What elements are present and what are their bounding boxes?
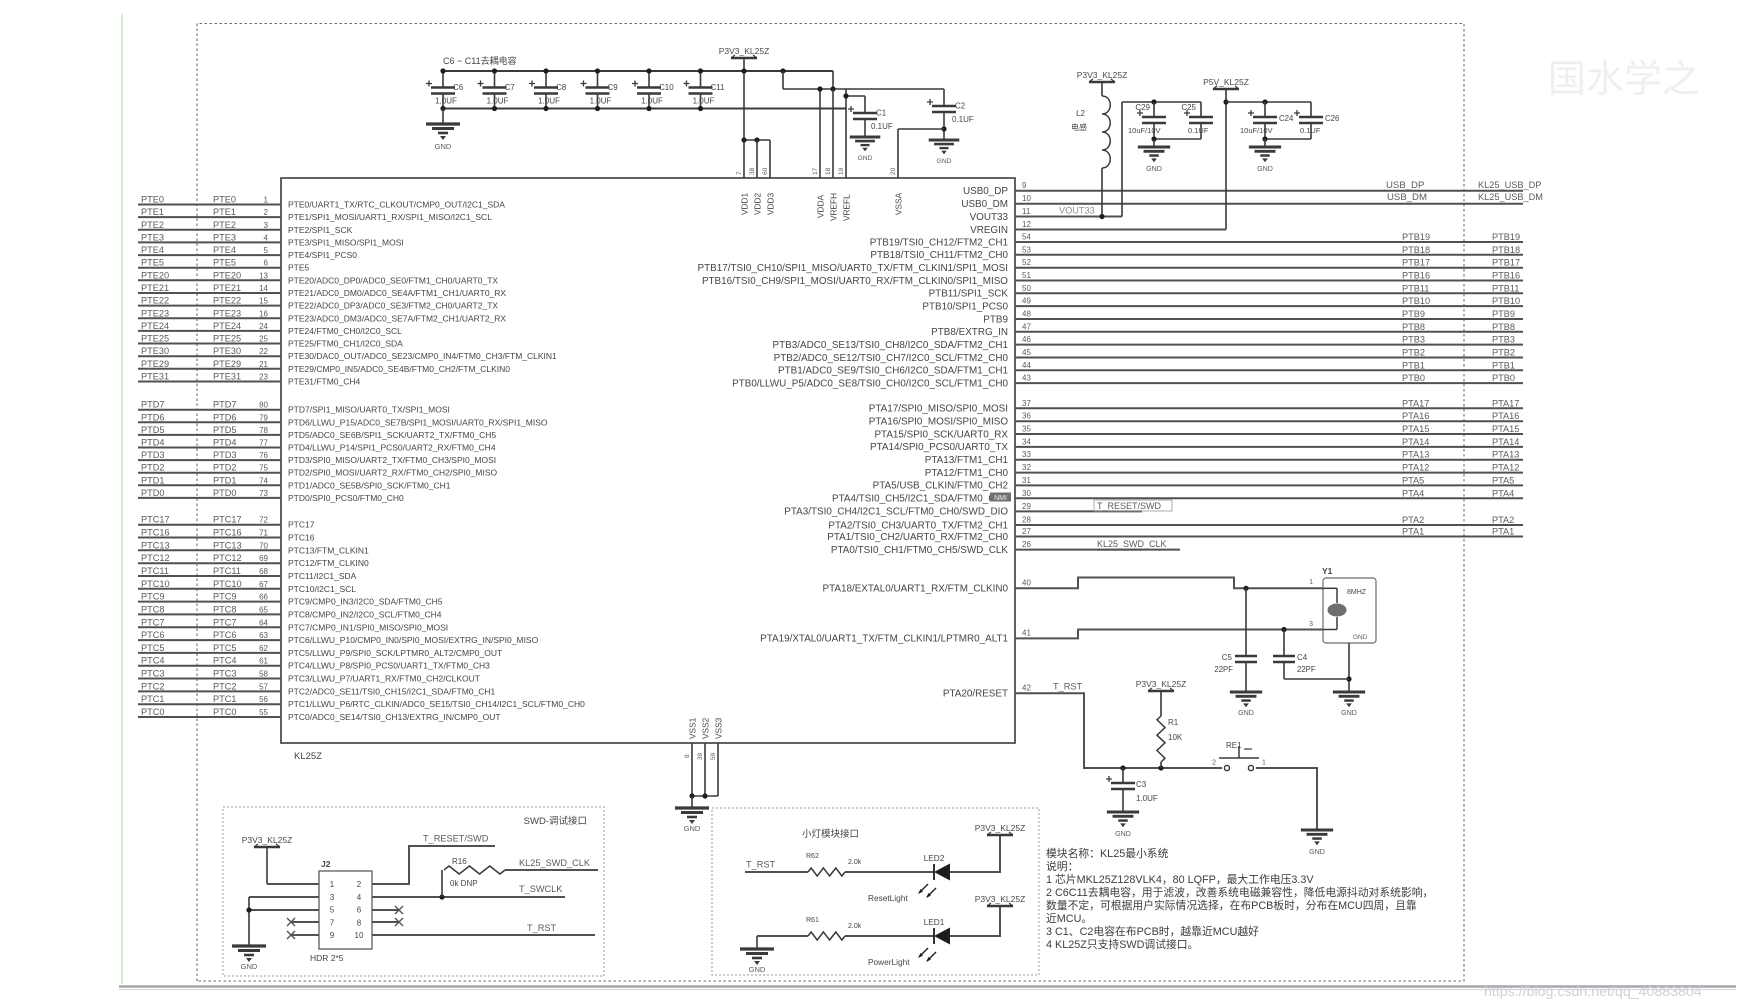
wire cap bottoms <box>1154 138 1201 140</box>
svg-text:33: 33 <box>1022 450 1031 459</box>
svg-text:22PF: 22PF <box>1297 665 1316 674</box>
svg-text:USB0_DP: USB0_DP <box>963 186 1008 197</box>
wire PTB19 net <box>1015 241 1523 243</box>
wire PTA13 net <box>1015 459 1523 461</box>
wire PTD4 net <box>138 447 281 449</box>
svg-text:71: 71 <box>259 529 268 538</box>
capacitor C9 1.0UF <box>597 71 599 88</box>
svg-text:PTE29: PTE29 <box>141 359 169 369</box>
wire PTD3 net <box>138 459 281 461</box>
svg-text:PTB0: PTB0 <box>1492 373 1515 383</box>
svg-text:69: 69 <box>259 554 268 563</box>
svg-text:PTA16/SPI0_MOSI/SPI0_MISO: PTA16/SPI0_MOSI/SPI0_MISO <box>869 417 1009 428</box>
svg-text:24: 24 <box>259 322 268 331</box>
svg-text:22: 22 <box>259 347 268 356</box>
svg-text:PTB16: PTB16 <box>1402 271 1430 281</box>
svg-text:PTE23: PTE23 <box>141 308 169 318</box>
svg-text:42: 42 <box>1022 684 1031 693</box>
wire PTB8 net <box>1015 331 1523 333</box>
svg-text:PTD7: PTD7 <box>141 400 165 410</box>
svg-text:PTC6: PTC6 <box>213 630 237 640</box>
wire VOUT33 net <box>1015 216 1122 218</box>
svg-text:PTE20: PTE20 <box>141 270 169 280</box>
wire pin1 <box>266 847 268 884</box>
no-connect pin6 <box>372 909 399 911</box>
capacitor C8 1.0UF <box>545 71 547 88</box>
svg-text:VREGIN: VREGIN <box>970 225 1008 236</box>
svg-text:PTC11: PTC11 <box>213 566 241 576</box>
svg-text:PTA13: PTA13 <box>1402 450 1429 460</box>
wire R62 to LED2 <box>845 871 934 873</box>
wire to C29 rail <box>1121 102 1123 217</box>
svg-text:45: 45 <box>1022 348 1031 357</box>
wire PTB1 net <box>1015 369 1523 371</box>
svg-text:14: 14 <box>259 284 268 293</box>
svg-text:PTC13: PTC13 <box>213 540 242 550</box>
wire PTC17 net <box>138 524 281 526</box>
svg-text:P5V_KL25Z: P5V_KL25Z <box>1203 77 1249 87</box>
svg-text:PTA5: PTA5 <box>1492 475 1514 485</box>
wire PTE1 net <box>138 216 281 218</box>
svg-text:PTA15: PTA15 <box>1492 424 1519 434</box>
svg-text:C9: C9 <box>608 83 619 92</box>
wire PTB17 net <box>1015 267 1523 269</box>
wire PTB3 net <box>1015 344 1523 346</box>
wire USB0_DP net USB_DP <box>1015 190 1523 192</box>
wire pin5 GND <box>249 909 319 911</box>
svg-text:C4: C4 <box>1297 653 1308 662</box>
svg-text:PTB17/TSI0_CH10/SPI1_MISO/UART: PTB17/TSI0_CH10/SPI1_MISO/UART0_TX/FTM_C… <box>698 263 1008 274</box>
svg-text:PTE25: PTE25 <box>141 334 169 344</box>
svg-text:PTE31: PTE31 <box>141 372 169 382</box>
svg-text:51: 51 <box>1022 271 1031 280</box>
svg-text:PTB10: PTB10 <box>1492 296 1520 306</box>
ground (cap bank) <box>442 109 444 125</box>
wire PTB2 net <box>1015 357 1523 359</box>
svg-text:PTD4: PTD4 <box>141 438 165 448</box>
wire VSSA <box>898 128 944 130</box>
ground (C5) <box>1230 690 1262 693</box>
svg-text:7: 7 <box>330 918 335 927</box>
svg-text:PTA18/EXTAL0/UART1_RX/FTM_CLKI: PTA18/EXTAL0/UART1_RX/FTM_CLKIN0 <box>823 584 1009 595</box>
power flag P3V3_KL25Z (VDD) <box>731 57 757 59</box>
svg-text:70: 70 <box>259 541 268 550</box>
wire PTC4 net <box>138 665 281 667</box>
svg-text:79: 79 <box>259 413 268 422</box>
svg-text:PTE0: PTE0 <box>213 195 236 205</box>
ground (C24/C26) <box>1264 139 1266 147</box>
svg-text:49: 49 <box>1022 297 1031 306</box>
svg-text:HDR 2*5: HDR 2*5 <box>310 953 344 963</box>
power flag P3V3_KL25Z (R1) <box>1148 690 1174 692</box>
svg-text:GND: GND <box>937 158 952 165</box>
svg-text:PTA5/USB_CLKIN/FTM0_CH2: PTA5/USB_CLKIN/FTM0_CH2 <box>873 481 1008 492</box>
svg-text:1.0UF: 1.0UF <box>435 97 457 106</box>
svg-text:GND: GND <box>241 962 258 971</box>
svg-text:数量不定，可根据用户实际情况选择，在布PCB板时，分布在MC: 数量不定，可根据用户实际情况选择，在布PCB板时，分布在MCU四周，且靠 <box>1046 898 1417 912</box>
svg-text:VREFL: VREFL <box>842 194 852 221</box>
wire PTE20 net <box>138 279 281 281</box>
svg-text:GND: GND <box>1341 709 1357 717</box>
svg-text:44: 44 <box>1022 361 1031 370</box>
svg-text:PTE25: PTE25 <box>213 334 241 344</box>
svg-text:2: 2 <box>1212 760 1216 767</box>
svg-text:40: 40 <box>1022 579 1031 588</box>
power rail top <box>443 70 833 72</box>
wire PTA2 net <box>1015 524 1523 526</box>
svg-text:PTA12/FTM1_CH0: PTA12/FTM1_CH0 <box>925 468 1009 479</box>
svg-text:2.0k: 2.0k <box>848 923 862 930</box>
wire XTAL0 pin 41 <box>1015 630 1323 639</box>
wire PTA17 net <box>1015 407 1523 409</box>
wire PTC12 net <box>138 562 281 564</box>
svg-text:PTB11/SPI1_SCK: PTB11/SPI1_SCK <box>929 289 1009 300</box>
svg-text:PTA15/SPI0_SCK/UART0_RX: PTA15/SPI0_SCK/UART0_RX <box>874 429 1008 440</box>
wire PTA12 net <box>1015 472 1523 474</box>
svg-text:25: 25 <box>259 335 268 344</box>
svg-text:PTC4: PTC4 <box>213 656 237 666</box>
svg-text:PTA1/TSI0_CH2/UART0_RX/FTM2_CH: PTA1/TSI0_CH2/UART0_RX/FTM2_CH0 <box>827 532 1008 543</box>
wire to C24 rail <box>1226 101 1311 103</box>
svg-text:PTB2: PTB2 <box>1402 348 1425 358</box>
svg-text:PTE0/UART1_TX/RTC_CLKOUT/CMP0_: PTE0/UART1_TX/RTC_CLKOUT/CMP0_OUT/I2C1_S… <box>288 200 505 210</box>
svg-text:PTD6: PTD6 <box>141 412 165 422</box>
svg-text:ResetLight: ResetLight <box>868 893 908 903</box>
svg-text:PTC1: PTC1 <box>141 694 165 704</box>
svg-text:T_RST: T_RST <box>746 860 775 870</box>
svg-text:PTA4: PTA4 <box>1492 488 1514 498</box>
wire PTB0 net <box>1015 382 1523 384</box>
svg-text:PTE1: PTE1 <box>213 207 236 217</box>
svg-text:VSS3: VSS3 <box>714 717 724 739</box>
capacitor C2 0.1UF <box>943 89 945 106</box>
wire PTE29 net <box>138 368 281 370</box>
svg-text:PTE24: PTE24 <box>213 321 241 331</box>
svg-text:72: 72 <box>259 516 268 525</box>
svg-text:PTC16: PTC16 <box>141 528 170 538</box>
svg-text:50: 50 <box>1022 284 1031 293</box>
svg-text:GND: GND <box>684 824 701 833</box>
wire PTE22 net <box>138 305 281 307</box>
svg-text:28: 28 <box>1022 516 1031 525</box>
svg-text:PTA0/TSI0_CH1/FTM0_CH5/SWD_CLK: PTA0/TSI0_CH1/FTM0_CH5/SWD_CLK <box>831 545 1008 556</box>
svg-text:LED2: LED2 <box>924 853 945 863</box>
svg-text:小灯模块接口: 小灯模块接口 <box>802 828 859 840</box>
svg-text:PTD1: PTD1 <box>141 475 165 485</box>
wire VREFL <box>845 89 847 178</box>
svg-text:VSS1: VSS1 <box>688 717 698 739</box>
wire crystal case ground <box>1348 643 1350 692</box>
sheet border dashed frame <box>197 24 1464 982</box>
svg-text:PTE31/FTM0_CH4: PTE31/FTM0_CH4 <box>288 377 361 387</box>
svg-text:2 C6C11去耦电容，用于滤波，改善系统电磁兼容性，降低电: 2 C6C11去耦电容，用于滤波，改善系统电磁兼容性，降低电源抖动对系统影响， <box>1046 885 1433 899</box>
svg-text:PTD7: PTD7 <box>213 400 237 410</box>
svg-text:PTB18: PTB18 <box>1402 245 1430 255</box>
svg-text:4: 4 <box>264 233 269 242</box>
svg-text:PTE5: PTE5 <box>288 263 310 273</box>
svg-text:PTC7/CMP0_IN1/SPI0_MISO/SPI0_M: PTC7/CMP0_IN1/SPI0_MISO/SPI0_MOSI <box>288 622 448 632</box>
svg-text:PTC2: PTC2 <box>213 681 237 691</box>
wire PTC2 net <box>138 690 281 692</box>
svg-text:8: 8 <box>357 918 362 927</box>
wire VDD stem <box>743 58 745 140</box>
wire PTA15 net <box>1015 433 1523 435</box>
svg-text:PTC1/LLWU_P6/RTC_CLKIN/ADC0_SE: PTC1/LLWU_P6/RTC_CLKIN/ADC0_SE15/TSI0_CH… <box>288 699 585 709</box>
svg-text:59: 59 <box>710 752 717 760</box>
svg-text:PTB16/TSI0_CH9/SPI1_MOSI/UART0: PTB16/TSI0_CH9/SPI1_MOSI/UART0_RX/FTM_CL… <box>702 276 1008 287</box>
svg-text:34: 34 <box>1022 437 1031 446</box>
svg-text:64: 64 <box>259 618 268 627</box>
svg-text:PTC3: PTC3 <box>213 669 237 679</box>
wire PTB11 net <box>1015 292 1523 294</box>
svg-text:0.1UF: 0.1UF <box>871 122 893 131</box>
svg-text:PTB8/EXTRG_IN: PTB8/EXTRG_IN <box>931 327 1008 338</box>
no-connect pin7 <box>291 921 319 923</box>
svg-text:PTE29/CMP0_IN5/ADC0_SE4B/FTM0_: PTE29/CMP0_IN5/ADC0_SE4B/FTM0_CH2/FTM_CL… <box>288 364 510 374</box>
svg-text:PTC9: PTC9 <box>213 592 237 602</box>
svg-text:30: 30 <box>1022 489 1031 498</box>
svg-text:PTC3/LLWU_P7/UART1_RX/FTM0_CH2: PTC3/LLWU_P7/UART1_RX/FTM0_CH2/CLKOUT <box>288 674 480 684</box>
wire PTC7 net <box>138 626 281 628</box>
svg-text:9: 9 <box>330 931 335 940</box>
svg-text:PTD1/ADC0_SE5B/SPI0_SCK/FTM0_C: PTD1/ADC0_SE5B/SPI0_SCK/FTM0_CH1 <box>288 480 451 490</box>
svg-text:73: 73 <box>259 489 268 498</box>
capacitor C5 22PF <box>1243 586 1248 591</box>
svg-text:C6 ~ C11去耦电容: C6 ~ C11去耦电容 <box>443 55 517 66</box>
svg-text:PTC11/I2C1_SDA: PTC11/I2C1_SDA <box>288 571 357 581</box>
svg-text:15: 15 <box>259 297 268 306</box>
svg-text:78: 78 <box>259 426 268 435</box>
svg-text:13: 13 <box>259 271 268 280</box>
resistor R62 (LED2) <box>808 868 845 876</box>
svg-text:VDD1: VDD1 <box>740 192 750 215</box>
svg-text:PTB19: PTB19 <box>1492 232 1520 242</box>
svg-text:GND: GND <box>1309 848 1325 856</box>
scan edge green line <box>121 14 123 984</box>
svg-text:43: 43 <box>1022 374 1031 383</box>
svg-text:PTD2/SPI0_MOSI/UART2_RX/FTM0_C: PTD2/SPI0_MOSI/UART2_RX/FTM0_CH2/SPI0_MI… <box>288 468 497 478</box>
svg-text:PTD7/SPI1_MISO/UART0_TX/SPI1_M: PTD7/SPI1_MISO/UART0_TX/SPI1_MOSI <box>288 405 450 415</box>
connector J2 HDR 2*5 <box>319 871 372 949</box>
svg-text:PTA1: PTA1 <box>1492 527 1514 537</box>
svg-text:KL25_USB_DM: KL25_USB_DM <box>1478 192 1543 202</box>
svg-text:47: 47 <box>1022 322 1031 331</box>
wire PTC8 net <box>138 613 281 615</box>
svg-text:27: 27 <box>1022 527 1031 536</box>
wire PTA1 net <box>1015 536 1523 538</box>
svg-text:1: 1 <box>264 196 269 205</box>
svg-text:3: 3 <box>264 221 269 230</box>
svg-text:R1: R1 <box>1168 718 1179 727</box>
svg-text:36: 36 <box>1022 412 1031 421</box>
svg-text:52: 52 <box>1022 258 1031 267</box>
svg-text:PTB10: PTB10 <box>1402 296 1430 306</box>
svg-text:PTC8/CMP0_IN2/I2C0_SCL/FTM0_CH: PTC8/CMP0_IN2/I2C0_SCL/FTM0_CH4 <box>288 609 442 619</box>
svg-text:C5: C5 <box>1222 653 1233 662</box>
svg-text:Y1: Y1 <box>1322 566 1333 576</box>
svg-text:46: 46 <box>1022 335 1031 344</box>
NMI marker on PTA4 <box>990 493 1011 502</box>
svg-text:54: 54 <box>1022 233 1031 242</box>
svg-text:PTC5: PTC5 <box>213 643 237 653</box>
wire PTC10 net <box>138 588 281 590</box>
svg-text:0k DNP: 0k DNP <box>450 879 478 888</box>
svg-text:10uF/10V: 10uF/10V <box>1240 126 1273 135</box>
svg-text:VSS2: VSS2 <box>701 717 711 739</box>
svg-text:PTA5: PTA5 <box>1402 475 1424 485</box>
svg-text:PTA14: PTA14 <box>1492 437 1519 447</box>
svg-text:PTD2: PTD2 <box>213 463 237 473</box>
wire PTE5 net <box>138 267 281 269</box>
svg-text:PTE4: PTE4 <box>213 245 236 255</box>
svg-text:PTE30: PTE30 <box>213 346 241 356</box>
svg-text:31: 31 <box>1022 476 1031 485</box>
wire VDD pins rail <box>744 139 770 141</box>
svg-text:PTD5: PTD5 <box>141 425 165 435</box>
svg-text:PTB1: PTB1 <box>1492 360 1515 370</box>
svg-text:PTE1: PTE1 <box>141 207 164 217</box>
svg-text:PTA14/SPI0_PCS0/UART0_TX: PTA14/SPI0_PCS0/UART0_TX <box>870 442 1008 453</box>
wire VDD1 <box>743 140 745 178</box>
svg-text:18: 18 <box>825 167 832 175</box>
wire C4 to case ground <box>1284 678 1349 680</box>
svg-text:T_SWCLK: T_SWCLK <box>519 884 563 894</box>
wire cap bottoms <box>1265 138 1311 140</box>
wire PTE3 net <box>138 241 281 243</box>
svg-text:R61: R61 <box>806 917 819 924</box>
svg-text:PTB1: PTB1 <box>1402 360 1425 370</box>
svg-text:PTE31: PTE31 <box>213 372 241 382</box>
svg-text:https://blog.csdn.net/qq_40883: https://blog.csdn.net/qq_40883804 <box>1484 984 1702 1000</box>
svg-text:PTA3/TSI0_CH4/I2C1_SCL/FTM0_CH: PTA3/TSI0_CH4/I2C1_SCL/FTM0_CH0/SWD_DIO <box>784 507 1008 518</box>
wire PTC16 net <box>138 537 281 539</box>
svg-text:P3V3_KL25Z: P3V3_KL25Z <box>242 835 293 845</box>
svg-text:PTE3: PTE3 <box>213 232 236 242</box>
svg-text:P3V3_KL25Z: P3V3_KL25Z <box>719 46 770 56</box>
svg-text:C8: C8 <box>556 83 567 92</box>
svg-text:C10: C10 <box>659 83 674 92</box>
svg-text:P3V3_KL25Z: P3V3_KL25Z <box>1136 679 1187 689</box>
svg-text:PTE2: PTE2 <box>141 220 164 230</box>
sheet bottom rule <box>119 985 1736 988</box>
svg-text:VOUT33: VOUT33 <box>970 212 1009 223</box>
svg-text:VDD2: VDD2 <box>753 192 763 215</box>
svg-text:PTE29: PTE29 <box>213 359 241 369</box>
svg-text:PTB0/LLWU_P5/ADC0_SE8/TSI0_CH0: PTB0/LLWU_P5/ADC0_SE8/TSI0_CH0/I2C0_SCL/… <box>732 378 1008 389</box>
svg-text:VREFH: VREFH <box>829 193 839 221</box>
svg-text:PTC5/LLWU_P9/SPI0_SCK/LPTMR0_A: PTC5/LLWU_P9/SPI0_SCK/LPTMR0_ALT2/CMP0_O… <box>288 648 502 658</box>
wire PTA4 net <box>1015 497 1523 499</box>
svg-text:PTE24: PTE24 <box>141 321 169 331</box>
capacitor C3 1.0UF <box>1122 768 1124 783</box>
wire GND drop <box>248 897 250 946</box>
svg-text:11: 11 <box>1022 207 1031 216</box>
svg-text:58: 58 <box>259 670 268 679</box>
svg-text:PTC7: PTC7 <box>141 617 165 627</box>
wire PTE2 net <box>138 229 281 231</box>
wire gnd to LED1 <box>757 935 808 937</box>
svg-text:PTE23/ADC0_DM3/ADC0_SE7A/FTM2_: PTE23/ADC0_DM3/ADC0_SE7A/FTM2_CH1/UART2_… <box>288 313 506 323</box>
svg-text:PTC6: PTC6 <box>141 630 165 640</box>
svg-text:PTA2/TSI0_CH3/UART0_TX/FTM2_CH: PTA2/TSI0_CH3/UART0_TX/FTM2_CH1 <box>828 520 1008 531</box>
svg-text:KL25_USB_DP: KL25_USB_DP <box>1478 180 1541 190</box>
LED LED1 PowerLight <box>933 928 935 944</box>
svg-text:PTA17: PTA17 <box>1492 398 1519 408</box>
capacitor C6 1.0UF <box>442 71 444 88</box>
svg-text:P3V3_KL25Z: P3V3_KL25Z <box>1077 70 1128 80</box>
capacitor C4 22PF <box>1281 627 1286 632</box>
svg-text:PTC9/CMP0_IN3/I2C0_SDA/FTM0_CH: PTC9/CMP0_IN3/I2C0_SDA/FTM0_CH5 <box>288 597 443 607</box>
svg-text:C7: C7 <box>505 83 516 92</box>
svg-text:PowerLight: PowerLight <box>868 957 910 967</box>
capacitor C7 1.0UF <box>494 71 496 88</box>
crystal Y1 8MHZ <box>1323 578 1376 643</box>
svg-text:PTA2: PTA2 <box>1402 515 1424 525</box>
bottom rail <box>443 108 846 110</box>
wire pin3 GND <box>249 896 319 898</box>
svg-text:PTB1/ADC0_SE9/TSI0_CH6/I2C0_SD: PTB1/ADC0_SE9/TSI0_CH6/I2C0_SDA/FTM1_CH1 <box>778 366 1008 377</box>
svg-text:PTD3/SPI0_MISO/UART2_TX/FTM0_C: PTD3/SPI0_MISO/UART2_TX/FTM0_CH3/SPI0_MO… <box>288 455 496 465</box>
ground (C1) <box>850 136 881 139</box>
svg-text:PTA20/RESET: PTA20/RESET <box>943 688 1008 699</box>
svg-text:61: 61 <box>259 657 268 666</box>
svg-text:75: 75 <box>259 464 268 473</box>
svg-text:4 KL25Z只支持SWD调试接口。: 4 KL25Z只支持SWD调试接口。 <box>1046 937 1198 951</box>
svg-text:55: 55 <box>259 708 268 717</box>
svg-text:1: 1 <box>1309 579 1313 586</box>
svg-text:PTC2: PTC2 <box>141 681 165 691</box>
svg-text:USB0_DM: USB0_DM <box>961 199 1008 210</box>
svg-text:T_RESET/SWD: T_RESET/SWD <box>423 834 489 844</box>
svg-text:PTB17: PTB17 <box>1492 258 1520 268</box>
svg-text:PTE5: PTE5 <box>141 258 164 268</box>
wire PTC11 net <box>138 575 281 577</box>
svg-text:T_RST: T_RST <box>527 923 556 933</box>
wire VREGIN net <box>1225 89 1227 230</box>
svg-text:PTE22/ADC0_DP3/ADC0_SE3/FTM2_C: PTE22/ADC0_DP3/ADC0_SE3/FTM2_CH0/UART2_T… <box>288 301 498 311</box>
ground (MCU VSS) <box>675 806 709 809</box>
svg-text:0.1UF: 0.1UF <box>952 115 974 124</box>
svg-text:电感: 电感 <box>1071 122 1087 132</box>
svg-text:10K: 10K <box>1168 733 1183 742</box>
wire PTD0 net <box>138 497 281 499</box>
wire PTE30 net <box>138 355 281 357</box>
wire PTE4 net <box>138 254 281 256</box>
wire PTB9 net <box>1015 318 1523 320</box>
ground (C3) <box>1107 810 1139 813</box>
svg-text:80: 80 <box>259 401 268 410</box>
svg-text:39: 39 <box>697 752 704 760</box>
svg-text:KL25Z: KL25Z <box>294 751 322 762</box>
svg-text:T_RESET/SWD: T_RESET/SWD <box>1097 501 1162 511</box>
svg-text:17: 17 <box>812 167 819 175</box>
svg-text:PTE3/SPI1_MISO/SPI1_MOSI: PTE3/SPI1_MISO/SPI1_MOSI <box>288 237 404 247</box>
svg-text:PTB3: PTB3 <box>1492 335 1515 345</box>
power flag P3V3_KL25Z (L2) <box>1089 81 1115 83</box>
svg-text:PTB3/ADC0_SE13/TSI0_CH8/I2C0_S: PTB3/ADC0_SE13/TSI0_CH8/I2C0_SDA/FTM2_CH… <box>773 340 1009 351</box>
MCU U1 KL25Z body <box>281 178 1015 743</box>
wire VDD3 <box>769 140 771 178</box>
svg-text:PTE0: PTE0 <box>141 195 164 205</box>
svg-text:PTB19: PTB19 <box>1402 232 1430 242</box>
svg-text:PTE3: PTE3 <box>141 232 164 242</box>
wire VSS1 <box>691 743 693 796</box>
svg-text:PTA4: PTA4 <box>1402 488 1424 498</box>
ground (RE1) <box>1301 828 1333 831</box>
ground (J2) <box>232 944 266 947</box>
SWD debug interface box <box>223 807 604 976</box>
svg-text:PTE21: PTE21 <box>213 283 241 293</box>
